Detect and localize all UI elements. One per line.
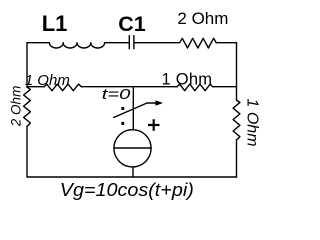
svg-text:L1: L1 (42, 11, 68, 36)
svg-text:2 Ohm: 2 Ohm (9, 86, 24, 128)
svg-text:1 Ohm: 1 Ohm (162, 71, 213, 89)
svg-text:Vg=10cos(t+pi): Vg=10cos(t+pi) (60, 180, 194, 200)
svg-text:2 Ohm: 2 Ohm (177, 9, 228, 28)
svg-text:C1: C1 (118, 12, 146, 36)
svg-text:t=0: t=0 (102, 86, 131, 103)
svg-text:1 Ohm: 1 Ohm (25, 72, 70, 89)
svg-text:1 Ohm: 1 Ohm (244, 99, 261, 147)
